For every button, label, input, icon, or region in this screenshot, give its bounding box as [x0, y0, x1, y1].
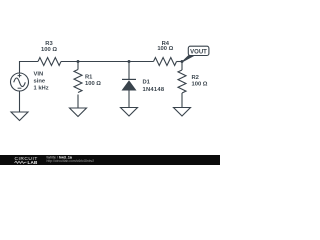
wire R1 lead — [77, 62, 79, 70]
ground R2 — [174, 108, 191, 117]
junction node at R2/VOUT — [181, 60, 184, 63]
wire R4 to node — [177, 61, 183, 63]
svg-text:http://circuitlab.com/c6rk48nb: http://circuitlab.com/c6rk48nbv2 — [47, 159, 95, 163]
diode D1 triangle — [122, 80, 137, 90]
svg-text:100 Ω: 100 Ω — [157, 46, 173, 52]
footer logo waveform — [15, 161, 27, 163]
ground R1 — [70, 108, 87, 117]
wire R2 lead — [181, 62, 183, 71]
junction node above D1 — [128, 60, 131, 63]
svg-text:100 Ω: 100 Ω — [85, 81, 101, 87]
ground D1 — [121, 108, 138, 117]
diode D1 cathode bar — [122, 78, 136, 80]
resistor R1 — [74, 70, 82, 93]
wire R1 to ground — [77, 95, 79, 109]
ground source — [11, 112, 28, 121]
junction node above R1 — [77, 60, 80, 63]
svg-text:VIN: VIN — [34, 72, 44, 78]
resistor R3 — [38, 58, 61, 66]
wire D1 lead — [128, 62, 130, 80]
VOUT flag box — [188, 46, 209, 55]
svg-text:R2: R2 — [192, 75, 199, 81]
resistor R4 — [154, 58, 177, 66]
voltage source V1 circle — [11, 73, 29, 91]
svg-text:100 Ω: 100 Ω — [192, 82, 208, 88]
svg-text:VOUT: VOUT — [190, 49, 207, 55]
plus sign in source — [18, 74, 22, 78]
wire D1 anode to ground — [128, 91, 130, 108]
svg-text:1N4148: 1N4148 — [143, 87, 165, 93]
svg-text:1 kHz: 1 kHz — [34, 86, 49, 92]
svg-text:100 Ω: 100 Ω — [41, 47, 57, 53]
sine wave inside source — [14, 78, 26, 87]
footer bar — [0, 155, 220, 165]
resistor R2 — [178, 70, 186, 93]
svg-text:R1: R1 — [85, 75, 93, 81]
wire R2 to ground — [181, 93, 183, 108]
wire source top to rail — [20, 62, 39, 74]
minus sign in source — [18, 87, 22, 89]
wire source bottom to ground — [19, 91, 21, 112]
svg-text:D1: D1 — [143, 80, 151, 86]
wire VOUT flag pointer — [182, 55, 194, 62]
wire rail R3 to R4 — [61, 61, 154, 63]
svg-text:sine: sine — [34, 79, 46, 85]
svg-text:LAB: LAB — [28, 160, 39, 165]
